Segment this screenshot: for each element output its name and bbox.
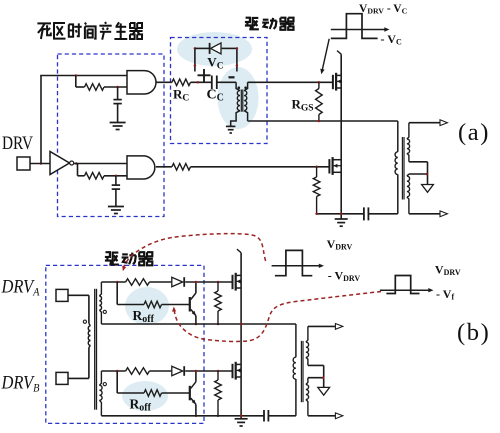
transformer T3 secondary A [99, 282, 101, 324]
label Roff B [130, 397, 152, 414]
series resistor (cell A) [126, 279, 150, 286]
transistor Q (cell B) [190, 382, 196, 405]
resistor Roff (cell B) [144, 390, 162, 397]
transformer T3 core [95, 289, 97, 410]
bottom wire cell B [101, 415, 263, 417]
T3 secondary B polarity dot [103, 383, 106, 386]
node collector (cell B) [195, 370, 198, 373]
wire inverter to bottom AND [74, 163, 127, 165]
label RGS [292, 97, 314, 114]
svg-text:(b): (b) [457, 319, 490, 346]
svg-text:DRV: DRV [2, 133, 33, 154]
waveform axis 2 (b) [380, 288, 434, 292]
series resistor (cell B) [126, 368, 150, 375]
svg-text:(a): (a) [458, 119, 490, 146]
red dashed curve 1 [122, 234, 265, 272]
pulldown resistor (cell B) [215, 371, 222, 416]
node clamp bottom-left [194, 64, 197, 67]
minus polarity mark [229, 76, 235, 78]
node collector (cell A) [195, 281, 198, 284]
node pulldown bottom (cell A) [217, 323, 220, 326]
label -VDRV [328, 268, 361, 283]
node on top wire [75, 74, 78, 77]
wire T4 out bottom [308, 415, 336, 417]
transformer T3 secondary B [99, 371, 102, 416]
DRVA input pad [56, 289, 68, 301]
wire CC to transformer [217, 81, 236, 83]
capacitor C2 to ground [112, 176, 120, 207]
Roff branch wire (cell B) [117, 371, 144, 393]
node R3 bottom [315, 213, 318, 216]
bottom wire (a) right [368, 213, 397, 215]
label RC [173, 87, 189, 104]
node clamp bottom-right [236, 64, 239, 67]
wire DRV pad to inverter [30, 163, 50, 165]
wire bottom RC branch [78, 164, 85, 176]
bottom wire cell A to T4 [101, 323, 296, 325]
T3 secondary A polarity dot [103, 310, 106, 313]
transformer T4 primary [293, 324, 296, 416]
diode D1 (clamp, points left) [210, 43, 221, 54]
highlight ellipse over Roff (cell B) [122, 381, 168, 411]
wire R1 to AND1 [104, 86, 127, 88]
wire DRV up to top AND [40, 76, 127, 165]
waveform pulse 1 (b) [275, 250, 312, 275]
transformer T1 primary [231, 82, 240, 126]
capacitor C1 to ground [113, 87, 121, 123]
transformer T4 secondary upper [306, 326, 309, 365]
plus polarity mark [198, 69, 211, 82]
label CC [207, 88, 224, 104]
Roff branch wire (cell A) [117, 282, 144, 305]
label (a) [458, 119, 490, 146]
AND gate U1 (top) [127, 71, 156, 94]
transformer T1 core [241, 90, 243, 112]
wire Roff to base (cell B) [162, 392, 190, 394]
emitter wire (cell A) [195, 316, 197, 324]
dead-time generator dashed box [58, 54, 165, 217]
resistor R2 (bottom delay) [85, 173, 105, 180]
resistor RGS [316, 82, 323, 121]
ground (rail a) [335, 219, 348, 226]
ground (C1) [110, 123, 126, 130]
transistor Q (cell A) [190, 293, 196, 316]
ground (T1 primary) [226, 126, 236, 133]
output arrow bottom (a) [440, 211, 447, 217]
waveform pulse 2 (b) [386, 276, 419, 294]
node RGS bottom [318, 120, 321, 123]
center tap wires [409, 162, 428, 185]
node emitter (cell B) [195, 415, 198, 418]
node clamp top-left [194, 47, 197, 50]
node pulldown bottom (cell B) [217, 415, 220, 418]
ground (rail b) [235, 419, 248, 426]
transformer T4 core [301, 341, 303, 402]
capacitor CC [212, 76, 217, 90]
node pulldown top (cell B) [217, 370, 220, 373]
T1 polarity dots [238, 86, 247, 89]
node RGS top [318, 81, 321, 84]
annotation arrow (a) [320, 39, 329, 74]
waveform axis (a) [331, 27, 390, 31]
highlight ellipse over driver transformer T1 [218, 67, 259, 129]
node center tap (b) [322, 376, 325, 379]
driver dashed box (a) [171, 38, 268, 144]
MOSFET Q3 (upper, b) [233, 273, 242, 291]
wire T1 secondary to gate (top rail a) [248, 81, 332, 83]
ground (C2) [108, 207, 124, 214]
MOSFET Q2 (lower, a) [329, 157, 341, 175]
capacitor C4 (dc block, b) [264, 410, 268, 422]
node branch (cell A) [116, 281, 119, 284]
transformer T4 secondary lower [306, 378, 309, 416]
wire DRVB to T3 primary [68, 347, 89, 378]
diode (cell A) [172, 277, 184, 287]
label VC [207, 55, 223, 72]
collector wire (cell B) [195, 371, 197, 382]
transformer T2 primary [395, 121, 398, 214]
node emitter (cell A) [195, 323, 198, 326]
capacitor C3 (dc block, a) [364, 207, 369, 220]
node Q2 gate resistor [315, 166, 318, 169]
wire clamp top [195, 47, 237, 49]
center tap wires (b) [308, 365, 324, 387]
node at inverter output [75, 162, 78, 165]
node junction on DRV wire [40, 162, 43, 165]
node rail mid (b) [240, 323, 243, 326]
collector wire (cell A) [195, 282, 197, 293]
wire AND1 to RC [156, 81, 172, 83]
highlight ellipse over Roff (cell A) [125, 287, 169, 325]
svg-text:VDRV - VC: VDRV - VC [359, 3, 408, 15]
wire RC to CC [191, 81, 212, 83]
resistor R1 (top delay) [85, 84, 105, 91]
node pulldown top (cell A) [217, 281, 220, 284]
highlight ellipse over clamp diode VC [177, 32, 252, 66]
resistor Roff (cell A) [144, 301, 162, 308]
bottom wire (a) left [317, 213, 364, 215]
node rail/bottom wire [340, 213, 343, 216]
label -VC [381, 32, 402, 47]
waveform pulse (a) [331, 14, 378, 39]
top wire (cell A) [101, 281, 232, 283]
resistor R3 (Q2 gate-source) [313, 167, 320, 214]
transformer T2 secondary lower [407, 174, 410, 214]
wire T4 out top [308, 325, 336, 327]
waveform axis 1 (b) [272, 264, 324, 268]
output arrow top (b) [335, 324, 342, 330]
DRV input pad [17, 157, 30, 170]
DRVB input pad [56, 372, 68, 384]
title text: driver (Chinese, a) [245, 18, 294, 30]
label -Vf [436, 287, 454, 302]
node clamp top-right [236, 47, 239, 50]
inverter U2 [50, 152, 74, 175]
transformer T1 secondary [244, 82, 248, 121]
label (b) [457, 319, 490, 346]
wire R2 to AND2 [104, 175, 127, 177]
label DRVB [1, 373, 40, 395]
wire T2 out bottom [409, 213, 440, 215]
clamp branch left wire [194, 48, 196, 71]
drain rail (b) with tick [237, 249, 241, 419]
emitter wire (cell B) [195, 404, 197, 415]
wire C4 to T4 [268, 415, 296, 417]
node RC/CC [197, 81, 200, 84]
wire DRVA to T3 primary [68, 295, 89, 323]
chassis ground (b) [318, 387, 330, 395]
red dashed curve 2 [172, 292, 381, 342]
chassis ground (a) [422, 185, 434, 193]
T3 primary polarity dot [83, 320, 86, 323]
AND gate U3 (bottom) [127, 156, 155, 179]
wire T2 out top [409, 122, 440, 124]
clamp branch right wire [236, 48, 238, 71]
output arrow bottom (b) [335, 413, 342, 419]
label VDRV 2 [435, 263, 461, 278]
resistor RC [172, 79, 191, 86]
drain rail Q1 with tick [337, 51, 341, 219]
wire Roff to base (cell A) [162, 304, 190, 306]
MOSFET Q4 (lower, b) [233, 362, 242, 380]
pulldown resistor (cell A) [215, 282, 222, 324]
node branch (cell B) [116, 370, 119, 373]
title text: dead-time generator (Chinese) [37, 22, 142, 40]
label DRVA [1, 277, 40, 299]
label VDRV 1 [327, 237, 353, 252]
transformer T2 core [402, 137, 404, 200]
driver dashed box (b) [46, 265, 204, 423]
transformer T2 secondary upper [407, 123, 410, 162]
node rail bottom (b) [240, 415, 243, 418]
label VDRV-VC [359, 3, 408, 15]
MOSFET Q1 (upper, a) [333, 73, 341, 91]
node center tap [426, 173, 429, 176]
transformer T3 primary [88, 324, 90, 348]
diode (cell B) [172, 366, 184, 376]
DRV input label [2, 133, 33, 154]
wire T1 secondary bottom rail [248, 120, 398, 122]
node R2/C2 junction [115, 175, 118, 178]
node R1/C1 junction [116, 86, 119, 89]
top wire (cell B) [101, 370, 232, 372]
title text: driver (Chinese, b) [105, 252, 153, 265]
label Roff A [133, 308, 155, 325]
wire top RC branch [76, 76, 85, 88]
output arrow top (a) [440, 120, 447, 126]
wire AND2 to Q2 gate [156, 164, 330, 171]
